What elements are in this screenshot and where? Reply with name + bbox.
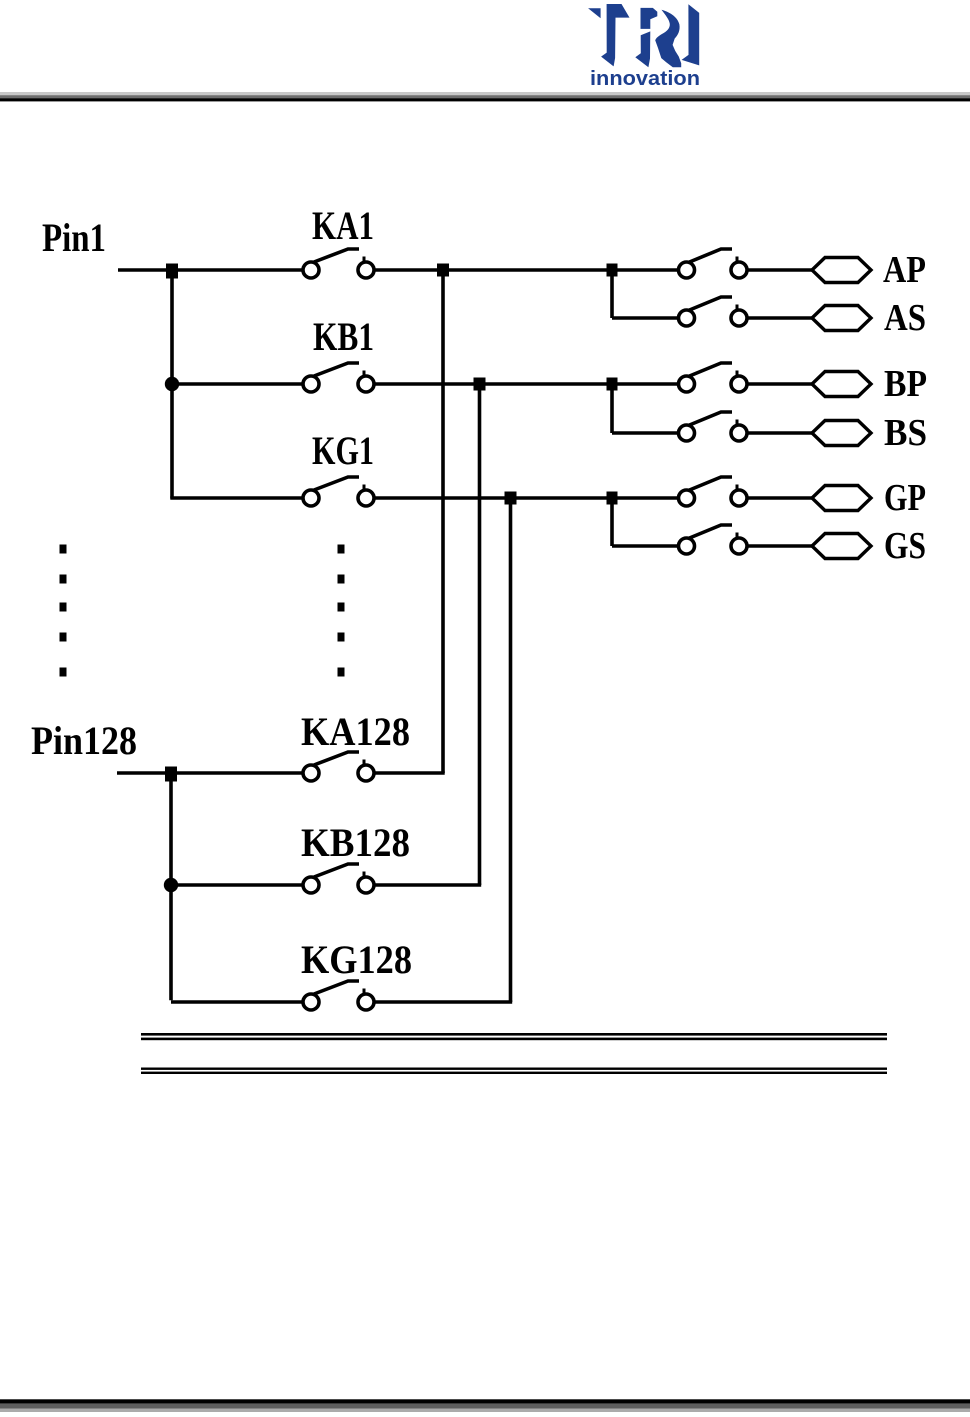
svg-text:KB1: KB1: [313, 314, 374, 359]
junction bus1/AP: [437, 264, 449, 277]
junction bus2/BP: [474, 378, 486, 391]
wire left bus Pin128 group: [169, 773, 173, 1000]
junction Pin1: [166, 264, 178, 279]
svg-text:KB128: KB128: [301, 820, 410, 865]
svg-text:BS: BS: [884, 412, 927, 454]
connector GP pad: [812, 486, 871, 511]
svg-text:KG128: KG128: [301, 937, 412, 982]
connector GS pad: [812, 534, 871, 559]
svg-text:GS: GS: [884, 525, 926, 567]
footer rule: [0, 1399, 970, 1403]
switch BP relay: [679, 363, 748, 392]
junction Pin128: [165, 767, 177, 782]
connector BS pad: [812, 421, 871, 446]
wire bus3 KG outputs: [509, 498, 513, 1002]
wire BS row: [612, 431, 814, 435]
wire Pin1 row: [118, 268, 814, 272]
TRI logo letter R stem lower: [635, 31, 650, 67]
double rule upper: [141, 1033, 887, 1040]
ellipsis left column: [60, 545, 67, 677]
svg-text:KA128: KA128: [301, 709, 410, 754]
TRI logo letter R bowl and leg: [655, 10, 681, 67]
wire branch B vertical: [610, 384, 614, 433]
wire left bus Pin1 group: [170, 270, 174, 499]
connector AS pad: [812, 306, 871, 331]
TRI logo letter R stem: [641, 8, 658, 29]
svg-text:BP: BP: [884, 363, 927, 405]
ellipsis middle column: [338, 545, 345, 677]
wire KG128 row: [171, 1000, 512, 1004]
switch KB128: [303, 864, 374, 893]
TRI logo letter T wedge: [588, 8, 601, 18]
svg-text:Pin1: Pin1: [42, 215, 106, 260]
junction KB1 tap: [165, 377, 179, 391]
svg-text:KG1: KG1: [312, 428, 374, 473]
wire branch A vertical: [610, 270, 614, 318]
wire KG1 row: [170, 496, 814, 500]
switch KA128: [303, 752, 374, 781]
wire AS row: [612, 316, 814, 320]
header rule: [0, 92, 970, 95]
wire branch G vertical: [610, 498, 614, 546]
switch GP relay: [679, 477, 748, 506]
switch KG128: [303, 981, 374, 1010]
switch BS relay: [679, 412, 748, 441]
junction bus3/GP: [505, 492, 517, 505]
double rule lower: [141, 1068, 887, 1075]
wire bus2 KB outputs: [478, 384, 482, 885]
junction branch BP: [607, 378, 618, 391]
svg-text:Pin128: Pin128: [31, 718, 137, 763]
svg-text:GP: GP: [884, 477, 926, 519]
wire Pin128 row: [117, 771, 445, 775]
junction branch GP: [607, 492, 618, 505]
junction KB128 tap: [164, 878, 178, 892]
wire GS row: [612, 544, 814, 548]
connector AP pad: [812, 258, 871, 283]
svg-text:AS: AS: [884, 297, 926, 339]
switch GS relay: [679, 525, 748, 554]
TRI logo letter T: [601, 4, 629, 66]
switch KA1: [303, 249, 374, 278]
wire bus1 KA outputs: [441, 270, 445, 773]
junction branch AP: [607, 264, 618, 277]
svg-text:AP: AP: [883, 249, 926, 291]
wire KB128 row: [171, 883, 481, 887]
svg-text:innovation: innovation: [590, 67, 700, 90]
switch AS relay: [679, 297, 748, 326]
connector BP pad: [812, 372, 871, 397]
TRI logo letter I: [682, 4, 700, 65]
svg-text:KA1: KA1: [312, 203, 374, 248]
switch KB1: [303, 363, 374, 392]
switch AP relay: [679, 249, 748, 278]
switch KG1: [303, 477, 374, 506]
wire KB1 row: [172, 382, 814, 386]
